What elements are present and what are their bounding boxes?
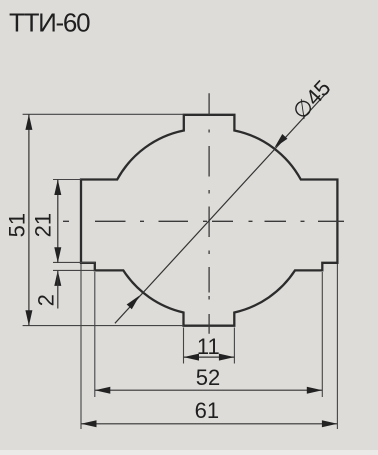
dim 51 extension bottom: [23, 325, 184, 327]
svg-text:61: 61: [195, 398, 219, 423]
dim 21 arrow up: [54, 180, 61, 196]
dim 61 arrow right: [322, 420, 338, 427]
dim 61 extension right: [336, 264, 338, 429]
dim 21 line: [57, 180, 59, 263]
dim 52 extension right: [321, 272, 323, 397]
svg-text:51: 51: [5, 213, 30, 237]
dim 11 extension right: [233, 328, 235, 364]
dim 11 arrow left: [184, 354, 200, 361]
dim 21 extension top: [53, 179, 81, 181]
svg-text:11: 11: [197, 334, 220, 359]
svg-text:ТТИ-60: ТТИ-60: [9, 8, 90, 38]
svg-text:52: 52: [196, 365, 220, 390]
dim 52 line: [95, 389, 322, 391]
bottom light strip: [0, 450, 378, 455]
dim 21 arrow down: [54, 247, 61, 262]
dim 11 line: [184, 356, 235, 358]
dim 52 arrow right: [307, 387, 323, 394]
body outline: [81, 115, 337, 326]
dim 61 extension left: [80, 264, 82, 429]
dim 61 line: [81, 423, 337, 425]
dim 51 arrow down: [25, 310, 32, 326]
vertical centerline: [208, 93, 210, 333]
dim 52 arrow left: [95, 387, 111, 394]
dim 51 line: [28, 114, 30, 325]
leader arrow upper: [274, 134, 287, 148]
dim 2 arrow up (below, pointing up): [54, 270, 61, 286]
dim 51 arrow up: [25, 114, 32, 129]
dim 51 extension top: [23, 113, 184, 115]
dim 11 arrow right: [219, 354, 235, 361]
svg-text:21: 21: [30, 213, 55, 237]
svg-text:2: 2: [34, 294, 59, 306]
dim 21 extension bottom: [53, 261, 95, 263]
dim 61 arrow left: [81, 420, 97, 427]
diameter leader line: [115, 90, 330, 324]
horizontal centerline: [63, 220, 344, 222]
dim 52 extension left: [94, 272, 96, 397]
leader arrow lower: [127, 295, 140, 309]
dim 11 extension left: [183, 328, 185, 364]
dim 2 stem: [57, 270, 59, 308]
dim 2 extension: [53, 269, 95, 271]
